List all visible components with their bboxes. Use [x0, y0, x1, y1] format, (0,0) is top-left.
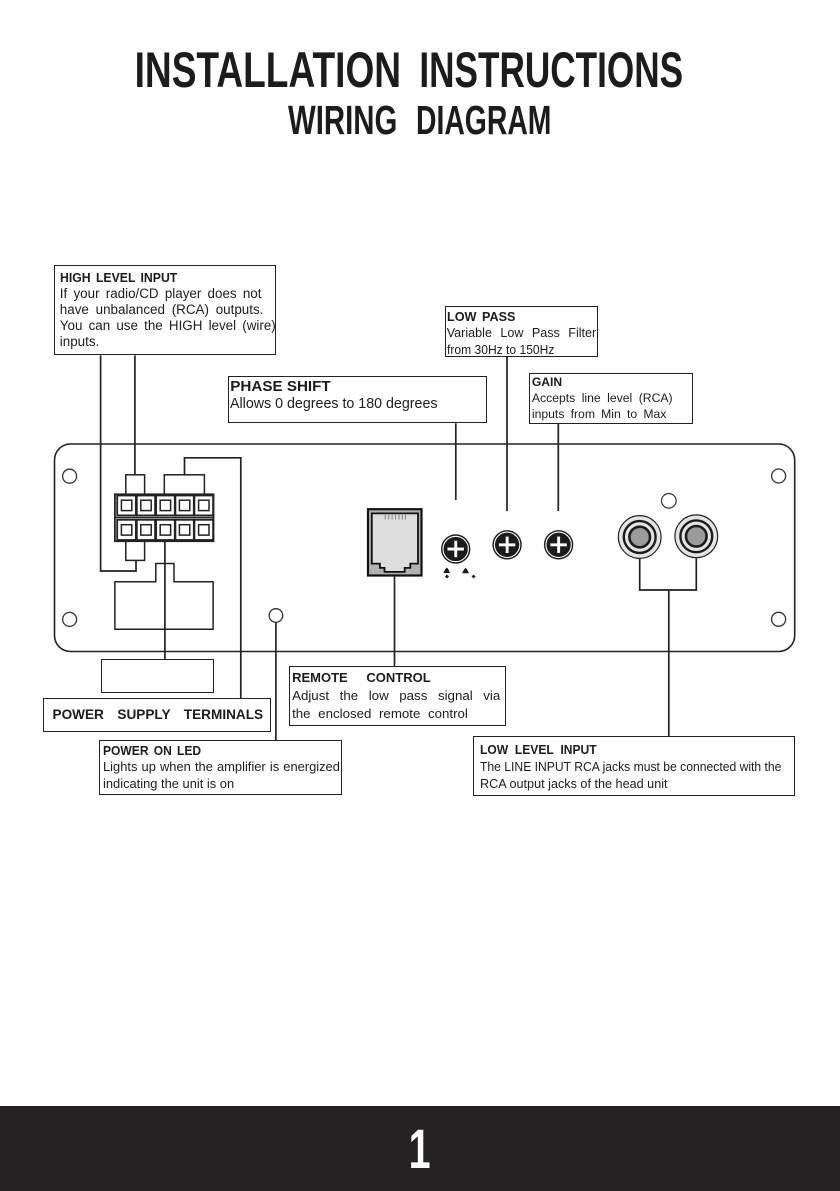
wire stub rectangle above POWER SUPPLY TERMINALS [101, 659, 214, 693]
RCA jack left [618, 516, 661, 559]
callout box PHASE SHIFT [228, 376, 487, 423]
wire joining RCA jacks down to LOW LEVEL INPUT box [640, 558, 697, 737]
knob 3 (gain) [544, 530, 573, 559]
pedestal shape under connector block [115, 564, 213, 630]
wire from HIGH LEVEL INPUT box left lead down and to lower tab [101, 355, 136, 571]
amplifier panel outline [55, 444, 795, 652]
connector pin cells row 2 [117, 520, 213, 540]
wire from connector upper tab up and right down to POWER SUPPLY TERMINALS box [185, 458, 241, 698]
screw hole top-left [63, 469, 77, 483]
knob 1 (phase shift) [441, 534, 470, 563]
power connector lower tab [126, 541, 145, 560]
callout box REMOTE CONTROL [289, 666, 506, 726]
callout box GAIN [529, 373, 692, 424]
svg-text:DIAGRAM: DIAGRAM [416, 97, 551, 143]
page subtitle [288, 97, 551, 143]
power connector upper tab 2 [164, 475, 204, 495]
wire from PHASE SHIFT box to knob 1 [455, 423, 457, 500]
wire from RJ45 jack down to REMOTE CONTROL box [394, 576, 396, 666]
knob 2 (low pass) [492, 530, 521, 559]
screw hole top-right [772, 469, 786, 483]
wire from LOW PASS box to knob 2 [506, 357, 508, 511]
knob 1 min tick mark [443, 567, 450, 578]
wire from GAIN box to knob 3 [557, 424, 559, 511]
power connector upper tab 1 [126, 475, 145, 495]
page title [135, 41, 684, 98]
callout box POWER ON LED [99, 740, 343, 795]
callout box POWER SUPPLY TERMINALS [43, 698, 271, 732]
power on LED circle [269, 609, 283, 623]
knob 1 max tick mark [462, 568, 476, 579]
screw hole bottom-right [772, 612, 786, 626]
remote control jack RJ45 body [368, 509, 422, 575]
svg-text:INSTALLATION: INSTALLATION [135, 41, 402, 98]
footer page number bar [0, 1106, 840, 1191]
screw hole bottom-left [63, 612, 77, 626]
callout box HIGH LEVEL INPUT [54, 265, 276, 355]
wire from connector block bottom down through pedestal to terminal box [164, 541, 166, 659]
callout box LOW PASS [445, 306, 598, 357]
wire from LED down to POWER ON LED box [275, 622, 277, 740]
svg-text:WIRING: WIRING [288, 97, 397, 143]
connector pin cells row 1 [117, 496, 213, 516]
svg-text:INSTRUCTIONS: INSTRUCTIONS [419, 41, 683, 98]
power connector block outer [115, 494, 214, 541]
RCA jack right [675, 515, 718, 558]
indicator hole above RCA jacks [662, 494, 677, 509]
wire from HIGH LEVEL INPUT box right lead to upper tab [134, 355, 136, 474]
callout box LOW LEVEL INPUT [473, 736, 795, 796]
